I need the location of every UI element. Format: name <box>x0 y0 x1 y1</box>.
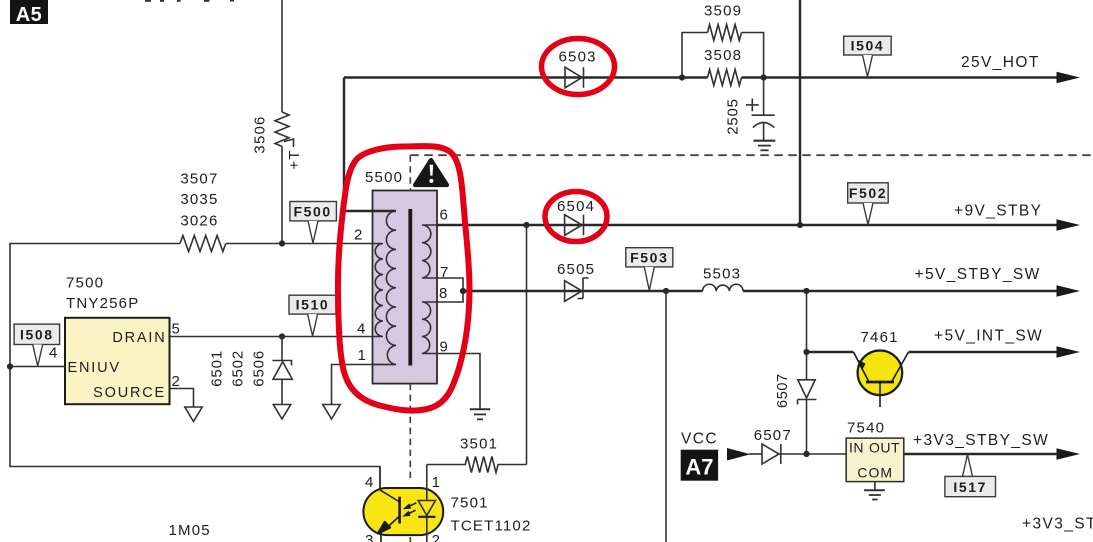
optocoupler U7501 TCET1102 <box>363 488 531 535</box>
wire: 3506 to node at y244 <box>281 146 283 243</box>
wire: vertical feed into resistor 3506 <box>281 0 283 112</box>
svg-text:TNY256P: TNY256P <box>66 295 139 312</box>
node: +5V branch to regulator chain <box>803 288 809 294</box>
red annotation circle around 6503 <box>542 39 615 95</box>
svg-text:2: 2 <box>432 532 440 542</box>
resistor 3501 <box>427 435 527 472</box>
secondary winding (pins 8-9) <box>422 302 437 354</box>
node: top feed joins +9V_STBY <box>797 222 803 228</box>
opto LED <box>418 501 435 542</box>
node: 3509 left <box>679 74 685 80</box>
signal arrow from A7 <box>727 448 751 461</box>
svg-text:6507: 6507 <box>775 373 791 408</box>
op-amp / switcher IC U7500 TNY256P <box>65 274 170 404</box>
wire: DRAIN pin 5 to transformer pin 4 <box>170 336 373 338</box>
resistor 3506 <box>252 112 304 170</box>
svg-text:1M05: 1M05 <box>169 522 211 539</box>
wire: +3V3_STBY_SW net <box>904 453 1059 455</box>
svg-text:5500: 5500 <box>365 169 403 186</box>
svg-text:4: 4 <box>357 321 365 338</box>
grid label A5 <box>10 0 48 26</box>
diode 6503 <box>559 49 597 88</box>
node: 3509 right / cap branch <box>761 74 767 80</box>
svg-text:6501: 6501 <box>208 350 225 387</box>
regulator U7540 <box>846 419 904 481</box>
svg-text:I504: I504 <box>851 38 885 54</box>
cut-off title text at top edge <box>145 0 234 2</box>
ground (7540 COM, bar style) <box>864 482 885 500</box>
svg-text:F502: F502 <box>849 185 887 201</box>
svg-text:F503: F503 <box>630 249 668 265</box>
wire: 25V_HOT riser from primary top <box>344 78 396 212</box>
opto phototransistor <box>378 490 400 542</box>
wire: branch down from F503 node <box>665 291 667 542</box>
wire: +9V_STBY net <box>437 224 1059 226</box>
svg-text:3508: 3508 <box>704 47 742 64</box>
wire: pin 1 to ground <box>332 365 397 405</box>
svg-text:ENIUV: ENIUV <box>68 360 121 376</box>
node: pin7/8 junction <box>460 288 466 294</box>
wire: pin 7 / pin 8 join <box>437 278 463 302</box>
opto pin 1 wire <box>426 465 428 501</box>
svg-text:6504: 6504 <box>557 198 595 215</box>
net arrow +5V_STBY_SW <box>1057 285 1081 297</box>
wire: vertical feed from top to +9V_STBY <box>799 0 801 225</box>
wire: 25V_HOT net <box>344 76 1059 78</box>
wire: +5V_INT_SW net left part <box>807 351 854 353</box>
svg-text:SOURCE: SOURCE <box>93 385 166 401</box>
wire: +5V_INT_SW net right part <box>909 351 1059 353</box>
transformer T5500 body <box>365 169 437 384</box>
ground (clamp diode, open triangle) <box>273 405 290 420</box>
label I517 <box>945 455 996 497</box>
svg-text:2505: 2505 <box>725 98 742 135</box>
svg-text:7501: 7501 <box>451 495 489 512</box>
svg-text:F500: F500 <box>293 203 331 219</box>
red annotation circle around 6504 <box>545 192 607 242</box>
svg-text:I517: I517 <box>953 479 987 495</box>
diode cluster 6501 6502 6506 labels <box>208 350 267 387</box>
node: drain wire to clamp diode <box>279 333 285 339</box>
svg-text:2: 2 <box>172 373 180 390</box>
transistor Q7461 <box>854 329 909 407</box>
transformer core <box>408 209 412 366</box>
node: junction 3506/3507/pin2 <box>279 240 285 246</box>
node: F503 branch <box>663 288 669 294</box>
svg-text:+5V_INT_SW: +5V_INT_SW <box>934 328 1043 345</box>
node: +5V_INT branch <box>803 349 809 355</box>
dashed isolation stub below optocoupler <box>409 537 411 542</box>
secondary winding (pins 6-7) <box>422 225 437 278</box>
svg-text:5: 5 <box>172 321 180 338</box>
net arrow 25V_HOT <box>1057 72 1081 84</box>
svg-text:6507: 6507 <box>754 427 792 444</box>
wire: left rail from resistor bank to pin 2 of 5500 <box>10 244 380 491</box>
node: pin6 branch <box>523 222 529 228</box>
svg-text:TCET1102: TCET1102 <box>451 518 532 535</box>
svg-text:3: 3 <box>365 532 373 542</box>
svg-text:OUT: OUT <box>869 440 900 456</box>
svg-text:I508: I508 <box>20 327 54 343</box>
svg-text:+5V_STBY_SW: +5V_STBY_SW <box>915 266 1041 283</box>
svg-text:+3V3_STBY_SW: +3V3_STBY_SW <box>913 432 1049 449</box>
svg-text:5503: 5503 <box>703 266 741 283</box>
svg-text:6503: 6503 <box>559 49 597 66</box>
svg-text:IN: IN <box>849 440 864 456</box>
node: pin4 wire on left rail <box>7 363 13 369</box>
resistor 3509 (parallel loop) <box>682 3 764 78</box>
ground (pin 9, bar style) <box>470 409 490 419</box>
wire: +5V_STBY_SW net <box>463 290 1059 292</box>
svg-text:6506: 6506 <box>251 350 268 387</box>
svg-text:2: 2 <box>354 227 362 244</box>
svg-text:+3V3_ST: +3V3_ST <box>1022 516 1093 533</box>
wire: VCC feed to diode 6507 <box>749 453 762 455</box>
opto light arrows <box>402 503 416 517</box>
svg-text:3509: 3509 <box>704 3 742 20</box>
zener diode 6507 (vertical) <box>775 373 817 454</box>
svg-text:6505: 6505 <box>557 261 595 278</box>
auxiliary winding (pins 2-4) <box>373 244 384 337</box>
ground (pin 1, open triangle) <box>323 405 340 420</box>
svg-text:25V_HOT: 25V_HOT <box>961 54 1040 71</box>
label F502 <box>848 183 889 225</box>
svg-text:+T: +T <box>286 149 303 169</box>
resistor 3507 / 3035 / 3026 <box>180 171 226 252</box>
net arrow +3V3_STBY_SW <box>1057 448 1081 460</box>
wire: SOURCE pin 2 to ground <box>170 389 194 408</box>
ground (2505, bar style) <box>753 141 775 151</box>
wire: branch pin6 node down to resistor 3501 <box>526 225 528 465</box>
svg-text:1: 1 <box>432 474 440 491</box>
grid label A7 <box>681 450 718 481</box>
label I510 <box>289 295 336 336</box>
svg-text:7540: 7540 <box>847 419 885 436</box>
net arrow +5V_INT_SW <box>1057 346 1081 358</box>
wire: pin 9 to ground <box>437 354 480 409</box>
dashed isolation line vertical above transformer <box>409 155 411 190</box>
svg-text:3035: 3035 <box>180 191 218 208</box>
inductor 5503 <box>703 266 743 291</box>
svg-text:8: 8 <box>439 285 447 302</box>
svg-text:7500: 7500 <box>66 274 104 291</box>
dashed isolation line vertical below transformer <box>409 384 411 481</box>
svg-text:I510: I510 <box>296 297 330 313</box>
warning triangle <box>415 160 447 185</box>
node: VCC/zener/regulator junction <box>803 451 809 457</box>
svg-text:3507: 3507 <box>180 171 218 188</box>
label I504 <box>844 36 892 76</box>
net arrow +9V_STBY <box>1057 219 1081 231</box>
svg-text:6502: 6502 <box>230 350 247 387</box>
primary winding (pins top-1) <box>373 211 397 365</box>
svg-text:3026: 3026 <box>180 212 218 229</box>
svg-text:7461: 7461 <box>861 329 899 346</box>
svg-text:DRAIN: DRAIN <box>112 330 166 346</box>
diode 6505 (transient suppressor) <box>557 261 595 301</box>
resistor 3508 (in line) <box>704 47 742 86</box>
svg-text:A5: A5 <box>16 4 43 26</box>
zener clamp diode (6501/6502/6506) <box>273 337 293 405</box>
label F503 <box>626 248 673 291</box>
svg-text:6: 6 <box>440 207 448 224</box>
wire: branch from +5V_STBY_SW down <box>806 291 808 380</box>
svg-text:1: 1 <box>358 347 366 364</box>
capacitor 2505 (polarized) <box>725 78 775 141</box>
svg-text:3506: 3506 <box>252 115 269 153</box>
red annotation loop around transformer <box>338 146 470 411</box>
svg-text:VCC: VCC <box>681 431 718 448</box>
dashed isolation line horizontal <box>410 154 1093 156</box>
svg-text:4: 4 <box>365 474 373 491</box>
label F500 <box>290 202 337 244</box>
svg-text:3501: 3501 <box>460 435 498 452</box>
svg-text:4: 4 <box>49 345 57 362</box>
ground (SOURCE, open triangle) <box>185 407 202 422</box>
svg-text:A7: A7 <box>685 455 713 480</box>
diode 6504 <box>557 198 595 236</box>
label I508 <box>14 324 60 366</box>
diode 6507 (horizontal) <box>754 427 847 464</box>
svg-text:COM: COM <box>857 464 893 480</box>
svg-text:+9V_STBY: +9V_STBY <box>954 202 1042 219</box>
wire: ENIUV pin 4 to left rail <box>10 366 65 368</box>
opto pin 4 wire <box>379 467 381 491</box>
